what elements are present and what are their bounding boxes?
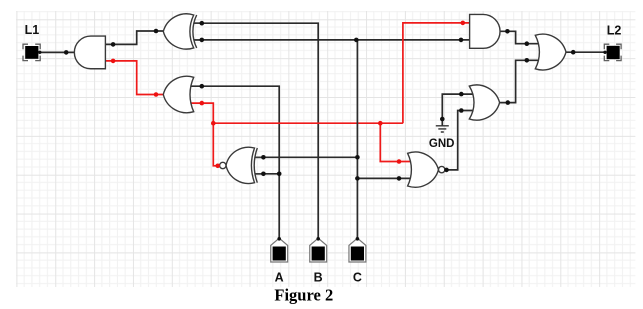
wire: XNOR1 bottom input to node A (256, 173, 280, 175)
junction dots black (64, 21, 576, 181)
wire: XOR1 output to AND1 top input (105, 31, 164, 44)
output LED L1 (23, 44, 42, 60)
wire: GND to OR2 top input (442, 94, 473, 126)
svg-text:L2: L2 (607, 24, 622, 38)
wire: XNOR1 top input to node C (256, 156, 358, 158)
svg-text:B: B (314, 271, 323, 285)
input pin C (349, 237, 366, 262)
wire: red branch up to AND2 top input (red) (403, 23, 470, 123)
wire: OR1 top input to node A (190, 86, 280, 239)
wire: AND2 output to OR3 top input (500, 31, 539, 43)
svg-text:A: A (275, 271, 284, 285)
wire: OR1 bottom input to XNOR1 output (red) (190, 103, 220, 166)
or-gate U3 (facing left) (163, 76, 193, 112)
svg-text:L1: L1 (25, 23, 40, 37)
wire: node C vertical (356, 40, 358, 239)
wire: C branch to NOR1 bottom input (357, 177, 412, 179)
svg-text:C: C (353, 271, 362, 285)
xnor-gate U4 (facing left) (220, 147, 264, 183)
and-gate U1 (facing left) (74, 36, 105, 69)
junction dots red (111, 21, 465, 169)
nor-gate U7 (facing right) (408, 152, 445, 187)
wire: red bus to right (red) (213, 122, 403, 124)
output LED L2 (603, 44, 621, 60)
wire: XOR1 bottom input to AND2 bottom input (195, 39, 471, 41)
svg-text:Figure 2: Figure 2 (274, 286, 333, 305)
svg-text:GND: GND (429, 138, 455, 150)
wire: red branch to NOR1 top input (red) (380, 123, 412, 161)
wire: OR3 output to L2 (566, 51, 605, 53)
or-gate U6 (facing right) (469, 85, 499, 120)
ground symbol GND (436, 126, 449, 132)
input pin B (310, 237, 327, 262)
input pin A (271, 237, 288, 262)
wire: NOR1 output to OR2 bottom input (445, 111, 473, 170)
wire: XOR1 top input to node B (195, 23, 319, 239)
xor-gate U2 (facing left) (163, 14, 203, 49)
wire: L1 to AND1 output (40, 51, 76, 53)
wire: OR1 output to AND1 bottom input (red) (105, 61, 164, 95)
and-gate U5 (facing right) (470, 14, 500, 48)
or-gate U8 (facing right) (535, 34, 566, 70)
wire: OR2 output to OR3 bottom input (500, 60, 540, 102)
